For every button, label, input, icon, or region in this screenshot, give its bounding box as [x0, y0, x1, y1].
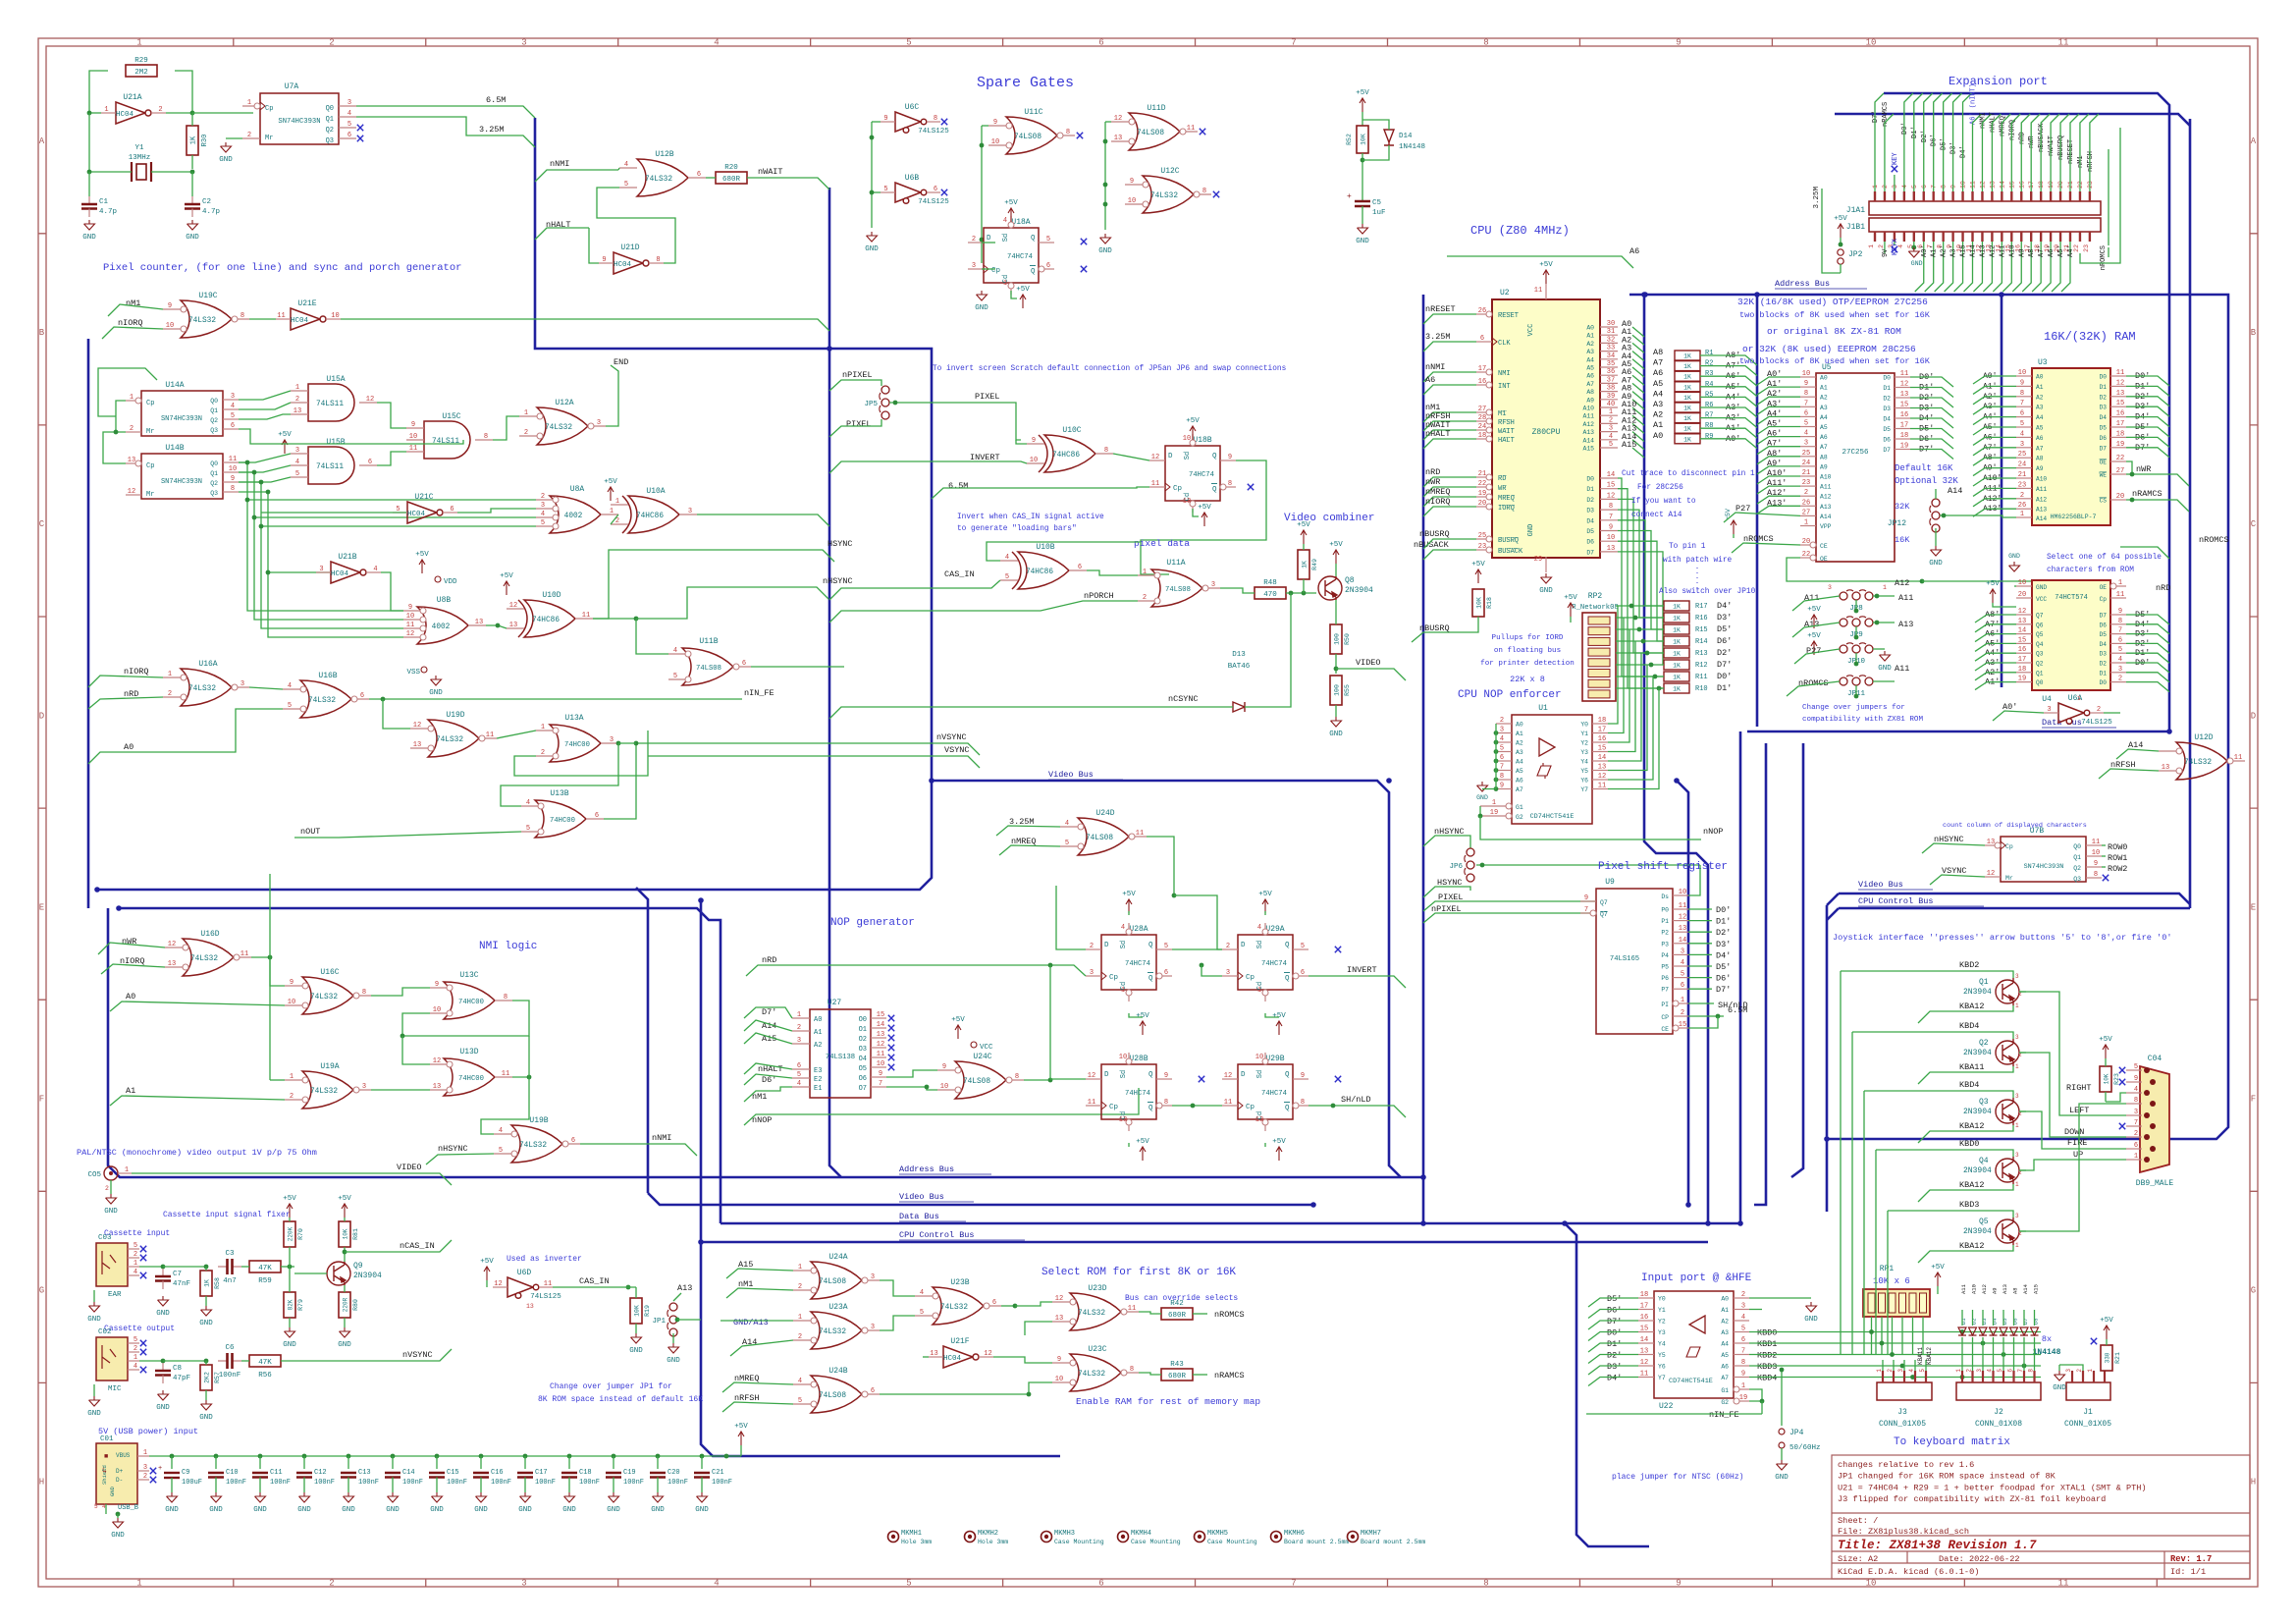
junction [1653, 675, 1658, 679]
gate U23A [811, 1312, 862, 1349]
svg-text:R43: R43 [1170, 1361, 1184, 1369]
power +5V [1731, 520, 1736, 534]
svg-text:or original 8K ZX-81 ROM: or original 8K ZX-81 ROM [1767, 326, 1901, 337]
svg-text:F: F [39, 1095, 44, 1105]
junction [288, 1265, 293, 1270]
svg-text:A5: A5 [2036, 425, 2044, 432]
svg-text:17: 17 [1598, 727, 1606, 734]
svg-text:1: 1 [797, 1011, 801, 1019]
svg-text:13: 13 [1987, 839, 1995, 846]
wire [270, 1079, 285, 1081]
svg-text:13: 13 [526, 1303, 534, 1310]
wire [1876, 1150, 2013, 1157]
wire [294, 832, 521, 838]
svg-text:R10: R10 [1695, 685, 1708, 693]
wire [1423, 487, 1476, 497]
wire [1749, 1309, 1762, 1311]
svg-text:J3 flipped for compatibility w: J3 flipped for compatibility with ZX-81 … [1838, 1494, 2106, 1504]
svg-text:D0: D0 [1586, 476, 1594, 483]
svg-text:CP: CP [1661, 1014, 1669, 1021]
svg-text:74LS11: 74LS11 [432, 438, 459, 446]
svg-text:27: 27 [2116, 467, 2124, 475]
power +5V [1301, 530, 1307, 544]
svg-text:D5': D5' [1716, 962, 1731, 972]
ground [89, 1396, 100, 1406]
wire [1924, 93, 1933, 145]
hole MKMH1 [888, 1532, 899, 1543]
diode D6 [2010, 1327, 2018, 1335]
wire [1973, 376, 2016, 384]
wire [1700, 418, 1757, 428]
wire [1618, 510, 1664, 618]
wire [1972, 1360, 1974, 1371]
svg-text:20: 20 [2018, 591, 2026, 599]
no-connect [2119, 1123, 2125, 1129]
svg-text:36: 36 [1607, 368, 1615, 376]
bus junction [116, 905, 122, 911]
wire [163, 1266, 206, 1268]
svg-text:A6: A6 [1425, 375, 1435, 385]
wire [524, 1478, 526, 1493]
wire [2126, 427, 2169, 437]
power +5V [1262, 899, 1268, 913]
gate U12C [1143, 176, 1194, 213]
wire [1993, 1310, 1995, 1326]
svg-text:to generate "loading bars": to generate "loading bars" [957, 525, 1077, 533]
svg-text:23: 23 [2018, 481, 2026, 489]
wire [175, 71, 192, 113]
svg-text:DOWN: DOWN [2064, 1127, 2084, 1137]
svg-text:6: 6 [360, 692, 364, 700]
power +5V [1935, 1272, 1941, 1286]
wire [1749, 1331, 2041, 1333]
wire [2104, 712, 2120, 714]
svg-text:VIDEO: VIDEO [397, 1163, 422, 1172]
wire [1757, 406, 1800, 414]
svg-text:D14: D14 [1399, 133, 1413, 140]
svg-text:100nF: 100nF [402, 1479, 423, 1487]
wire [1881, 1317, 1883, 1355]
svg-text:A0: A0 [126, 992, 135, 1001]
svg-text:R20: R20 [724, 164, 738, 172]
wire [1632, 440, 1644, 450]
wire [2099, 769, 2159, 779]
svg-text:R8: R8 [1705, 422, 1713, 430]
svg-text:B: B [39, 328, 45, 338]
connector C03 EAR [96, 1243, 128, 1286]
wire [481, 1077, 529, 1134]
wire [1972, 128, 1974, 191]
wire [1616, 676, 1664, 677]
diode D8 [2031, 1327, 2039, 1335]
svg-text:6: 6 [231, 422, 235, 430]
wire [89, 112, 101, 114]
svg-text:A2: A2 [1516, 740, 1523, 747]
svg-text:D: D [1241, 1071, 1246, 1079]
svg-text:D4': D4' [1960, 145, 1968, 158]
svg-text:D0: D0 [2100, 679, 2108, 686]
svg-text:R19: R19 [644, 1305, 651, 1317]
wire [239, 477, 291, 482]
svg-text:1: 1 [1257, 987, 1261, 995]
junction [870, 190, 875, 195]
svg-text:100nF: 100nF [535, 1479, 556, 1487]
wire [1016, 440, 1027, 444]
svg-text:HC04: HC04 [291, 317, 309, 325]
svg-text:5: 5 [1005, 573, 1009, 581]
wire [377, 403, 406, 428]
wire [1855, 653, 1857, 664]
svg-text:GND: GND [474, 1506, 488, 1514]
wire [1945, 242, 1953, 292]
svg-text:KBD4: KBD4 [1959, 1080, 1979, 1090]
svg-text:U16C: U16C [320, 968, 339, 977]
svg-text:GND: GND [2053, 1384, 2066, 1392]
svg-text:D1: D1 [2100, 384, 2108, 391]
wire [1264, 1143, 1266, 1147]
svg-text:U8A: U8A [570, 485, 585, 494]
svg-text:J1B1: J1B1 [1846, 223, 1865, 232]
wire [215, 1456, 217, 1469]
resistor R49 [1298, 550, 1309, 579]
svg-text:74HC00: 74HC00 [550, 817, 575, 825]
junction [268, 955, 273, 960]
svg-text:1: 1 [104, 106, 108, 114]
svg-text:4n7: 4n7 [223, 1277, 237, 1285]
wire [1940, 514, 1963, 516]
svg-text:12: 12 [509, 602, 517, 610]
wire [999, 845, 1060, 855]
wire [1894, 175, 1896, 191]
svg-text:10: 10 [2092, 849, 2100, 857]
wire bus [119, 908, 721, 1223]
wire [1918, 1245, 2013, 1263]
wire [1193, 509, 1199, 516]
junction [214, 1454, 219, 1459]
wire [1757, 466, 1800, 474]
svg-text:Q: Q [1285, 1105, 1290, 1112]
wire [2019, 1230, 2026, 1232]
svg-text:100: 100 [1334, 633, 1341, 645]
svg-text:13: 13 [413, 741, 421, 749]
svg-text:U12D: U12D [2194, 733, 2213, 742]
IC U5 27C256 [1816, 373, 1895, 562]
wire [2102, 855, 2106, 857]
svg-text:KBD3: KBD3 [1757, 1362, 1777, 1372]
wire [2126, 634, 2169, 644]
svg-text:nNMI: nNMI [550, 159, 569, 169]
svg-text:74LS08: 74LS08 [1014, 134, 1041, 141]
svg-text:nNOP: nNOP [752, 1115, 772, 1125]
junction [1780, 1368, 1785, 1373]
svg-text:4: 4 [295, 459, 299, 466]
svg-text:U27: U27 [828, 999, 842, 1007]
svg-text:A3: A3 [1586, 349, 1594, 355]
svg-text:nHSYNC: nHSYNC [1934, 835, 1964, 844]
svg-text:Pullups for IORD: Pullups for IORD [1492, 634, 1564, 642]
svg-text:D0': D0' [1901, 122, 1909, 135]
svg-text:1K: 1K [1673, 651, 1681, 658]
svg-text:1: 1 [615, 498, 619, 506]
wire [1875, 93, 1884, 126]
wire [1757, 437, 1800, 445]
wire [1973, 448, 2016, 456]
svg-text:R79: R79 [297, 1299, 304, 1311]
wire [1840, 264, 1842, 273]
svg-text:10K: 10K [343, 1228, 349, 1239]
svg-text:1: 1 [1804, 519, 1808, 527]
svg-text:R56: R56 [258, 1372, 272, 1380]
svg-text:82K: 82K [288, 1299, 294, 1310]
wire bus [1422, 295, 1425, 1223]
svg-text:nOUT: nOUT [300, 827, 320, 837]
svg-text:R4: R4 [1705, 381, 1713, 389]
svg-text:U6B: U6B [905, 174, 920, 183]
svg-text:R1: R1 [1705, 350, 1713, 357]
ground [867, 232, 878, 242]
wire [751, 666, 844, 668]
connector J2 [1956, 1382, 2041, 1400]
svg-text:3: 3 [1226, 969, 1230, 977]
svg-text:5: 5 [673, 673, 677, 680]
svg-text:A0: A0 [1721, 1296, 1729, 1303]
svg-text:CAS_IN: CAS_IN [944, 569, 975, 579]
ground [1100, 234, 1111, 244]
wire [191, 113, 193, 126]
svg-text:3: 3 [1804, 440, 1808, 448]
svg-text:12: 12 [433, 1057, 441, 1065]
junction [1191, 1104, 1196, 1109]
svg-text:A12: A12 [2036, 496, 2047, 503]
wire [501, 743, 618, 806]
wire [1894, 242, 1896, 245]
gate U11C [1006, 117, 1057, 154]
svg-text:2: 2 [295, 396, 299, 404]
svg-text:Pixel shift register: Pixel shift register [1598, 861, 1728, 873]
svg-text:3: 3 [1897, 1369, 1904, 1373]
svg-text:74HC74: 74HC74 [1125, 1090, 1150, 1098]
wire [1608, 629, 1629, 742]
svg-text:U16A: U16A [198, 660, 217, 669]
wire [1975, 634, 2016, 642]
svg-text:G2: G2 [1721, 1399, 1729, 1406]
svg-text:nIORQ: nIORQ [1425, 497, 1451, 507]
wire bus [1629, 295, 2228, 1139]
svg-text:A10: A10 [1820, 474, 1832, 481]
svg-text:A13: A13 [677, 1283, 692, 1293]
svg-text:A13: A13 [1582, 429, 1594, 436]
svg-text:VCC: VCC [1527, 324, 1535, 337]
no-connect [1081, 239, 1087, 244]
svg-text:R52: R52 [1346, 134, 1353, 145]
wire bus [2189, 119, 2192, 908]
svg-text:D1: D1 [1586, 486, 1594, 493]
gate U11A [1151, 569, 1202, 607]
svg-text:C10: C10 [226, 1469, 239, 1477]
junction [1478, 814, 1483, 819]
wire [1588, 1366, 1638, 1375]
svg-text:+5V: +5V [283, 1195, 296, 1203]
svg-text:+5V: +5V [480, 1258, 494, 1266]
wire [1822, 189, 1841, 273]
svg-text:9: 9 [1032, 437, 1036, 445]
wire [1588, 1321, 1638, 1329]
wire [281, 1349, 452, 1361]
wire [1423, 477, 1476, 487]
svg-text:D3: D3 [2100, 405, 2108, 411]
junction [1048, 1078, 1053, 1083]
wire [2058, 1365, 2060, 1371]
wire [103, 432, 126, 463]
svg-text:4: 4 [1609, 433, 1613, 441]
svg-text:Q1: Q1 [326, 116, 334, 124]
svg-text:10: 10 [1679, 889, 1686, 896]
svg-text:1K: 1K [1673, 627, 1681, 634]
svg-text:CD74HCT541E: CD74HCT541E [1530, 813, 1575, 821]
svg-text:12: 12 [2018, 608, 2026, 616]
wire [2106, 1339, 2108, 1345]
svg-text:D1': D1' [1607, 1339, 1622, 1349]
wire [132, 1173, 452, 1185]
wire [2126, 461, 2189, 486]
junction [1494, 749, 1499, 754]
svg-text:8: 8 [362, 989, 366, 997]
svg-text:12: 12 [1224, 1072, 1232, 1080]
svg-text:nM1: nM1 [2077, 155, 2085, 168]
svg-text:3: 3 [2118, 666, 2122, 674]
svg-text:13MHz: 13MHz [129, 154, 151, 162]
junction [496, 623, 501, 628]
svg-text:KBD1: KBD1 [1757, 1339, 1777, 1349]
svg-text:50/60Hz: 50/60Hz [1789, 1444, 1821, 1452]
svg-text:D5': D5' [1607, 1294, 1622, 1304]
svg-text:Y2: Y2 [1658, 1319, 1666, 1326]
wire [611, 514, 618, 524]
svg-text:A5: A5 [1820, 424, 1828, 431]
svg-text:47nF: 47nF [173, 1280, 190, 1288]
svg-text:15: 15 [1679, 1021, 1686, 1029]
svg-text:3.25M: 3.25M [1813, 187, 1821, 209]
junction [1494, 731, 1499, 735]
svg-text:U16D: U16D [200, 930, 219, 939]
svg-text:Q5: Q5 [2036, 631, 2044, 638]
svg-text:P1: P1 [1661, 918, 1669, 925]
wire bus [829, 188, 841, 1177]
resistor R50 [1330, 624, 1342, 654]
svg-text:6: 6 [450, 506, 454, 514]
svg-text:C: C [39, 519, 45, 529]
svg-text:2N3904: 2N3904 [1963, 988, 1992, 997]
power +5V [1333, 550, 1339, 564]
svg-text:R30: R30 [201, 135, 209, 147]
wire [1608, 606, 1618, 724]
wire [589, 228, 599, 263]
svg-text:1K: 1K [1683, 426, 1691, 433]
wire [247, 499, 536, 501]
no-connect [888, 1035, 894, 1041]
wire [2031, 114, 2040, 151]
wire [1264, 911, 1266, 915]
svg-text:U11D: U11D [1147, 104, 1165, 113]
flip-flop U18B [1165, 446, 1220, 501]
svg-text:1: 1 [798, 1314, 802, 1322]
gate U12B [637, 159, 688, 196]
wire [344, 1247, 346, 1262]
wire [1588, 1378, 1638, 1386]
junction [347, 1454, 351, 1459]
svg-text:6: 6 [368, 459, 372, 466]
junction [893, 401, 898, 406]
svg-text:12: 12 [128, 488, 135, 496]
wire [829, 707, 1233, 719]
IC U7A [260, 93, 339, 144]
svg-text:+: + [158, 1465, 162, 1473]
svg-text:D0': D0' [1607, 1328, 1622, 1338]
wire [1873, 680, 1895, 682]
svg-text:15: 15 [1607, 482, 1615, 490]
svg-text:D1: D1 [1960, 1318, 1967, 1325]
svg-text:D1: D1 [2100, 670, 2108, 677]
svg-text:SH/nLD: SH/nLD [1341, 1095, 1371, 1105]
wire [1925, 1360, 1927, 1371]
svg-text:4: 4 [1741, 1314, 1745, 1322]
svg-text:A: A [2251, 136, 2257, 146]
bus junction [929, 778, 934, 784]
wire [1570, 617, 1572, 623]
capacitor C9 [164, 1472, 180, 1474]
svg-text:ROW2: ROW2 [2108, 864, 2127, 874]
svg-text:C14: C14 [402, 1469, 415, 1477]
svg-text:D4': D4' [1607, 1374, 1622, 1383]
svg-text:U5: U5 [1822, 363, 1832, 372]
svg-text:C13: C13 [358, 1469, 371, 1477]
wire bus [1739, 731, 1742, 1223]
wire [2042, 242, 2051, 292]
wire [239, 482, 403, 628]
no-connect [357, 125, 363, 131]
wire [1423, 421, 1476, 431]
svg-text:1K: 1K [1673, 675, 1681, 681]
svg-text:3: 3 [1681, 947, 1684, 955]
svg-text:Y7: Y7 [1580, 786, 1588, 793]
junction [1910, 1375, 1915, 1380]
wire [1918, 1066, 2013, 1084]
svg-text:OE: OE [2100, 460, 2108, 466]
svg-text:10: 10 [1607, 534, 1615, 542]
wire [0, 0, 1, 1]
wire [110, 1001, 285, 1011]
svg-text:13: 13 [1640, 1348, 1648, 1356]
wire [1982, 1337, 1984, 1360]
wire [139, 1360, 163, 1362]
wire [1787, 558, 1922, 581]
svg-text:330: 330 [2105, 1352, 2111, 1363]
wire [553, 1286, 574, 1288]
svg-text:74LS32: 74LS32 [310, 1088, 338, 1096]
svg-text:MKMH2: MKMH2 [978, 1530, 998, 1538]
svg-text:1K: 1K [1683, 374, 1691, 381]
svg-text:28: 28 [1478, 414, 1486, 422]
svg-text:O5: O5 [859, 1065, 867, 1073]
wire [613, 1456, 614, 1469]
wire [1757, 457, 1800, 464]
ground [1931, 546, 1942, 556]
svg-text:A14: A14 [1582, 437, 1594, 444]
svg-text:4: 4 [798, 1378, 802, 1385]
svg-text:A7: A7 [1820, 444, 1828, 451]
svg-text:4: 4 [1005, 554, 1009, 562]
resistor R14 [1664, 636, 1689, 646]
